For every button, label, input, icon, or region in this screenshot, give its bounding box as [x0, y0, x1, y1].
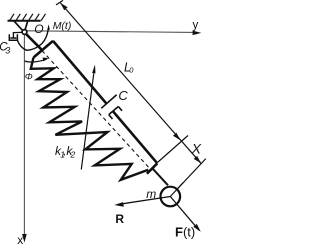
svg-text:3: 3	[5, 45, 10, 55]
svg-text:0: 0	[129, 66, 134, 75]
svg-text:y: y	[193, 19, 199, 31]
svg-text:2: 2	[70, 149, 76, 159]
svg-text:x: x	[17, 233, 23, 244]
svg-text:Φ: Φ	[25, 71, 33, 82]
svg-text:F(t): F(t)	[175, 225, 195, 240]
svg-text:M(t): M(t)	[53, 20, 72, 32]
svg-text:m: m	[146, 187, 156, 201]
svg-text:C: C	[118, 88, 128, 103]
svg-text:O: O	[34, 22, 43, 36]
svg-text:R: R	[115, 212, 124, 226]
svg-text:X: X	[191, 140, 202, 156]
